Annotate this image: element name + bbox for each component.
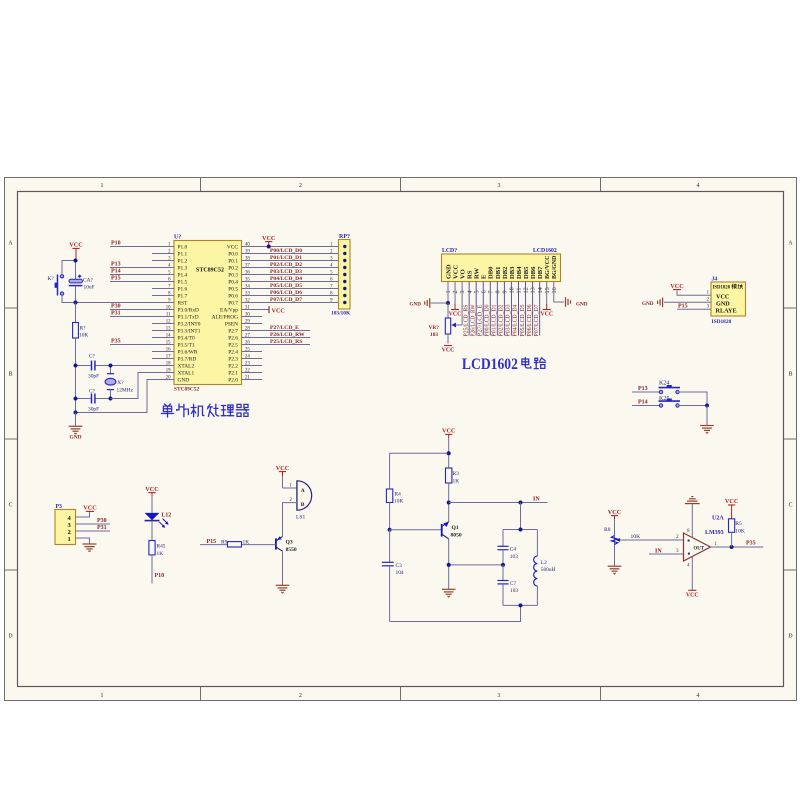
svg-text:P00/LCD_D0: P00/LCD_D0 bbox=[270, 248, 302, 254]
wire P3 pin1 to ground bbox=[76, 538, 90, 544]
ground Q1 bbox=[442, 589, 456, 597]
connector P3 body bbox=[55, 504, 76, 545]
svg-text:P00/LCD_D0: P00/LCD_D0 bbox=[484, 305, 491, 337]
svg-text:P26/LCD_RW: P26/LCD_RW bbox=[469, 304, 476, 337]
svg-text:P07/LCD_D7: P07/LCD_D7 bbox=[270, 297, 302, 303]
junction cap left top bbox=[74, 364, 78, 368]
svg-text:GND: GND bbox=[576, 301, 588, 307]
svg-text:VCC: VCC bbox=[725, 498, 738, 505]
junction gnd node bbox=[74, 411, 78, 415]
svg-text:12MHz: 12MHz bbox=[117, 387, 134, 393]
svg-text:8050: 8050 bbox=[451, 532, 462, 538]
frame column/row tick marks bbox=[4, 177, 797, 701]
svg-text:1K: 1K bbox=[157, 551, 164, 557]
junction base node bbox=[388, 528, 392, 532]
svg-text:11: 11 bbox=[516, 288, 523, 294]
net labels P27/LCD_E P26/LCD_RW P25/LCD_RS bbox=[270, 325, 305, 345]
svg-text:R3: R3 bbox=[453, 471, 460, 477]
svg-text:P25/LCD_RS: P25/LCD_RS bbox=[270, 339, 302, 345]
svg-text:DB6: DB6 bbox=[530, 266, 537, 279]
svg-text:STC89C52: STC89C52 bbox=[174, 387, 199, 393]
wire tank top bbox=[503, 503, 537, 530]
svg-text:P3.6/WR: P3.6/WR bbox=[178, 350, 198, 356]
svg-text:VCC: VCC bbox=[452, 264, 459, 279]
svg-text:4: 4 bbox=[697, 183, 700, 189]
svg-text:ISD1820: ISD1820 bbox=[712, 319, 732, 325]
svg-text:10K: 10K bbox=[79, 333, 88, 339]
svg-text:VCC: VCC bbox=[276, 465, 289, 472]
svg-text:VO: VO bbox=[460, 269, 467, 279]
wire tank bottom loop bbox=[390, 605, 521, 621]
power port VCC Q1 bbox=[442, 428, 455, 438]
svg-text:E: E bbox=[481, 274, 488, 279]
junction collector/IN bbox=[447, 501, 451, 505]
LCD header connector LCD? body bbox=[442, 248, 561, 282]
junction LCD pin1 bbox=[446, 301, 450, 305]
svg-text:30pF: 30pF bbox=[88, 407, 99, 413]
wire P3 pin4 VCC bbox=[76, 512, 90, 517]
svg-text:P2.2: P2.2 bbox=[228, 364, 238, 370]
svg-text:P14: P14 bbox=[638, 400, 648, 406]
svg-text:P31: P31 bbox=[97, 525, 107, 531]
junction IN/tank bbox=[519, 501, 523, 505]
svg-text:VCC: VCC bbox=[83, 505, 96, 512]
svg-text:103: 103 bbox=[510, 588, 518, 594]
wire J4 pin3 P15 bbox=[677, 308, 711, 310]
svg-text:K24: K24 bbox=[659, 380, 669, 386]
op-amp pin numbers bbox=[676, 529, 717, 569]
rotated net labels P25/LCD_RS etc bbox=[462, 304, 539, 337]
svg-text:P02/LCD_D2: P02/LCD_D2 bbox=[498, 305, 505, 337]
svg-text:P1.3: P1.3 bbox=[178, 266, 188, 272]
svg-text:P06/LCD_D6: P06/LCD_D6 bbox=[526, 305, 533, 337]
svg-text:VCC: VCC bbox=[442, 428, 455, 435]
svg-text:P30: P30 bbox=[111, 303, 121, 309]
ground Q3 bbox=[276, 585, 290, 593]
svg-text:1: 1 bbox=[68, 536, 71, 543]
ground K24/K25 bbox=[700, 406, 714, 434]
transistor Q1 8050 bbox=[442, 522, 462, 539]
svg-text:VCC: VCC bbox=[227, 245, 238, 251]
svg-text:4: 4 bbox=[697, 693, 700, 699]
wire R45 to P10 bbox=[151, 555, 153, 584]
svg-text:BG/GND: BG/GND bbox=[551, 255, 558, 279]
svg-text:P10: P10 bbox=[111, 240, 121, 246]
svg-text:3: 3 bbox=[498, 693, 501, 699]
wire P3 pin3 P30 bbox=[76, 523, 111, 525]
ground LCD left (sideways) bbox=[410, 298, 430, 308]
svg-text:P15: P15 bbox=[111, 275, 121, 281]
wire op-amp V+ pin8 bbox=[691, 504, 693, 538]
U? pin name labels bbox=[178, 245, 239, 384]
svg-text:B: B bbox=[301, 502, 305, 508]
svg-text:P31: P31 bbox=[111, 310, 121, 316]
svg-text:VCC: VCC bbox=[69, 242, 82, 249]
svg-text:P3.5/T1: P3.5/T1 bbox=[178, 343, 196, 349]
wire op-amp V- pin4 bbox=[691, 556, 693, 590]
svg-text:P0.1: P0.1 bbox=[228, 259, 238, 265]
svg-text:GND: GND bbox=[642, 301, 654, 307]
wire R8 to pin2 bbox=[620, 539, 684, 541]
svg-text:VCC: VCC bbox=[145, 486, 158, 493]
svg-text:P2.5: P2.5 bbox=[228, 343, 238, 349]
svg-text:GND: GND bbox=[410, 301, 422, 307]
svg-text:P1.7: P1.7 bbox=[178, 294, 188, 300]
svg-text:3: 3 bbox=[498, 183, 501, 189]
U? pin numbers 1-40 bbox=[166, 242, 251, 380]
wire K24 to gnd rail bbox=[679, 392, 707, 406]
svg-text:D: D bbox=[788, 634, 792, 640]
LCD? pin numbers 1-16 (rotated) bbox=[445, 287, 558, 293]
ground reset GND bbox=[69, 413, 83, 441]
svg-text:GND: GND bbox=[70, 435, 82, 441]
power port VCC below VR? bbox=[442, 346, 455, 354]
svg-text:10K: 10K bbox=[735, 528, 745, 534]
svg-text:P0.3: P0.3 bbox=[228, 273, 238, 279]
svg-text:P27/LCD_E: P27/LCD_E bbox=[270, 325, 299, 331]
svg-text:P1.4: P1.4 bbox=[178, 273, 188, 279]
resistor R5 10K bbox=[729, 519, 745, 547]
svg-text:P05/LCD_D5: P05/LCD_D5 bbox=[519, 305, 526, 337]
svg-text:P25/LCD_RS: P25/LCD_RS bbox=[462, 304, 469, 336]
svg-text:6: 6 bbox=[480, 290, 487, 293]
junction reset top bbox=[74, 259, 78, 263]
svg-text:1: 1 bbox=[445, 290, 452, 293]
LED L12 bbox=[145, 512, 172, 528]
svg-text:C7: C7 bbox=[510, 581, 517, 587]
svg-text:P0.0: P0.0 bbox=[228, 252, 238, 258]
svg-text:P1.5: P1.5 bbox=[178, 280, 188, 286]
svg-text:2: 2 bbox=[452, 290, 459, 293]
junction RST node bbox=[74, 301, 78, 305]
svg-text:VCC: VCC bbox=[540, 312, 553, 318]
ground above op-amp (inverted) bbox=[685, 497, 700, 504]
ground LCD right (sideways) bbox=[566, 297, 588, 307]
svg-text:P0.4: P0.4 bbox=[228, 280, 238, 286]
svg-text:P1.0: P1.0 bbox=[178, 245, 188, 251]
svg-text:R?: R? bbox=[80, 325, 87, 331]
svg-text:VCC: VCC bbox=[608, 509, 621, 516]
svg-text:CA?: CA? bbox=[83, 277, 93, 283]
wire emitter node bbox=[449, 539, 503, 589]
svg-text:P03/LCD_D3: P03/LCD_D3 bbox=[505, 304, 512, 336]
wire output P35 bbox=[711, 546, 764, 548]
title LCD1602电路 bbox=[462, 356, 546, 373]
power port VCC at P3 bbox=[83, 505, 96, 512]
wire K25 to gnd rail bbox=[679, 405, 707, 407]
title 单片机处理器 bbox=[161, 404, 249, 417]
wire P3 pin2 P31 bbox=[76, 530, 111, 532]
svg-text:R9: R9 bbox=[221, 540, 228, 546]
svg-text:P04/LCD_D4: P04/LCD_D4 bbox=[270, 276, 302, 282]
capacitor C3 104 bbox=[382, 530, 404, 622]
svg-text:P3.2/INT0: P3.2/INT0 bbox=[178, 322, 201, 328]
svg-text:2: 2 bbox=[299, 693, 302, 699]
svg-text:P01/LCD_D1: P01/LCD_D1 bbox=[491, 305, 498, 337]
svg-text:VCC: VCC bbox=[442, 348, 455, 354]
svg-text:P2.4: P2.4 bbox=[228, 350, 238, 356]
frame zone labels bbox=[8, 183, 793, 699]
svg-text:VCC: VCC bbox=[670, 283, 683, 290]
svg-text:Q1: Q1 bbox=[452, 525, 459, 531]
svg-text:RS: RS bbox=[467, 270, 474, 279]
ground R8 bbox=[608, 566, 622, 574]
svg-text:STC89C52: STC89C52 bbox=[196, 268, 224, 274]
capacitor C7 103 bbox=[497, 565, 518, 606]
power port VCC LCD pin2 bbox=[449, 310, 462, 318]
J4 pin numbers bbox=[707, 291, 710, 310]
svg-text:P26/LCD_RW: P26/LCD_RW bbox=[270, 332, 305, 338]
svg-text:XTAL2: XTAL2 bbox=[178, 364, 195, 370]
svg-text:DB1: DB1 bbox=[495, 267, 502, 279]
svg-text:P13: P13 bbox=[111, 261, 121, 267]
svg-text:103: 103 bbox=[510, 554, 518, 560]
svg-text:P1.6: P1.6 bbox=[178, 287, 188, 293]
svg-text:DB2: DB2 bbox=[502, 266, 509, 279]
svg-text:P2.3: P2.3 bbox=[228, 357, 238, 363]
svg-text:P0.2: P0.2 bbox=[228, 266, 238, 272]
svg-text:R45: R45 bbox=[157, 544, 166, 550]
pushbutton K24 bbox=[659, 380, 681, 393]
svg-text:K?: K? bbox=[48, 276, 55, 282]
wire K? branch bbox=[62, 261, 76, 303]
svg-text:Q3: Q3 bbox=[286, 540, 293, 546]
wire IN net bbox=[449, 502, 548, 504]
svg-text:P07/LCD_D7: P07/LCD_D7 bbox=[533, 304, 540, 337]
svg-text:P3.1/TxD: P3.1/TxD bbox=[178, 315, 199, 321]
svg-text:103: 103 bbox=[430, 332, 438, 338]
wire base bbox=[390, 529, 442, 531]
svg-text:R8: R8 bbox=[604, 527, 611, 533]
svg-text:EA/Vpp: EA/Vpp bbox=[220, 308, 238, 314]
capacitor C? 30pF lower bbox=[76, 388, 111, 412]
svg-text:DB0: DB0 bbox=[488, 266, 495, 279]
wire P13 bbox=[632, 391, 660, 393]
junction emitter bbox=[447, 563, 451, 567]
ground P3 bbox=[83, 544, 97, 551]
svg-text:2: 2 bbox=[299, 183, 302, 189]
svg-text:DB4: DB4 bbox=[516, 266, 523, 279]
junction output/R5 bbox=[730, 545, 734, 549]
svg-text:OUT: OUT bbox=[694, 546, 705, 551]
svg-text:P30: P30 bbox=[97, 518, 107, 524]
junction cap left bottom bbox=[74, 397, 78, 401]
svg-text:RLAYE: RLAYE bbox=[716, 307, 737, 314]
svg-text:500uH: 500uH bbox=[541, 567, 556, 573]
ground J4 (sideways) bbox=[642, 298, 663, 308]
svg-text:15: 15 bbox=[544, 287, 551, 293]
svg-text:10uF: 10uF bbox=[84, 284, 95, 290]
svg-text:P3.7/RD: P3.7/RD bbox=[178, 357, 197, 363]
svg-text:C: C bbox=[789, 503, 793, 509]
svg-text:J4: J4 bbox=[712, 277, 718, 283]
power port VCC R8 bbox=[608, 509, 621, 519]
svg-text:1: 1 bbox=[101, 693, 104, 699]
capacitor CA? 10uF bbox=[69, 261, 95, 303]
power port VCC R5 bbox=[725, 498, 738, 519]
wire R3 to collector node bbox=[448, 483, 450, 522]
svg-text:B: B bbox=[789, 372, 793, 378]
svg-text:10K: 10K bbox=[394, 499, 403, 505]
svg-text:X?: X? bbox=[117, 380, 124, 386]
wire P15 stub bbox=[200, 544, 228, 546]
junction tank top bbox=[519, 528, 523, 532]
svg-text:ALE/PROG: ALE/PROG bbox=[212, 315, 238, 321]
svg-text:P2.6: P2.6 bbox=[228, 336, 238, 342]
svg-text:16: 16 bbox=[551, 287, 558, 293]
resistor R45 1K bbox=[149, 541, 166, 557]
svg-text:103/10K: 103/10K bbox=[331, 311, 351, 317]
junction xtal top bbox=[109, 364, 113, 368]
svg-text:7: 7 bbox=[487, 290, 494, 293]
VR? wiper arrow from LCD pin3 bbox=[451, 323, 462, 328]
LS1 pin numbers bbox=[290, 483, 293, 503]
svg-text:P0.7: P0.7 bbox=[228, 301, 238, 307]
power port VCC below op-amp bbox=[686, 590, 699, 598]
svg-text:P10: P10 bbox=[155, 573, 165, 579]
svg-text:P3.3/INT1: P3.3/INT1 bbox=[178, 329, 201, 335]
junction tank bottom bbox=[519, 603, 523, 607]
svg-text:LCD1602: LCD1602 bbox=[462, 356, 518, 373]
svg-text:P04/LCD_D4: P04/LCD_D4 bbox=[512, 304, 519, 337]
svg-text:VCC: VCC bbox=[686, 592, 699, 598]
svg-text:BG/VCC: BG/VCC bbox=[544, 255, 551, 279]
junction C4/C7 bbox=[501, 563, 505, 567]
wire Q3 base bbox=[242, 544, 276, 546]
junction xtal bottom bbox=[109, 397, 113, 401]
resistor R3 1K bbox=[446, 468, 460, 484]
svg-text:1: 1 bbox=[101, 183, 104, 189]
svg-text:LCD?: LCD? bbox=[442, 248, 457, 254]
svg-text:1K: 1K bbox=[243, 540, 250, 546]
svg-text:3: 3 bbox=[459, 290, 466, 293]
svg-text:VCC: VCC bbox=[272, 307, 285, 314]
pushbutton K25 bbox=[659, 396, 681, 407]
svg-text:8: 8 bbox=[494, 290, 501, 293]
svg-text:P02/LCD_D2: P02/LCD_D2 bbox=[270, 262, 302, 268]
svg-text:4: 4 bbox=[466, 290, 473, 293]
svg-text:P0.5: P0.5 bbox=[228, 287, 238, 293]
svg-text:ISD1820: ISD1820 bbox=[713, 286, 731, 291]
svg-text:A: A bbox=[301, 488, 305, 494]
MCU U? STC89C52 body bbox=[174, 235, 242, 393]
svg-text:30pF: 30pF bbox=[88, 374, 99, 380]
svg-text:PSEN: PSEN bbox=[225, 322, 238, 328]
svg-text:13: 13 bbox=[530, 287, 537, 293]
wire P14 bbox=[632, 405, 660, 407]
svg-text:9: 9 bbox=[502, 290, 509, 293]
svg-text:RST: RST bbox=[178, 301, 189, 307]
svg-text:K25: K25 bbox=[659, 396, 669, 402]
U? right pin wires bbox=[242, 247, 339, 380]
svg-text:U2A: U2A bbox=[712, 516, 724, 522]
module J4 ISD1820 body bbox=[711, 277, 746, 325]
crystal X? 12MHz bbox=[105, 366, 133, 399]
wire XTAL1 to C? bbox=[111, 373, 175, 399]
svg-text:12: 12 bbox=[523, 287, 530, 293]
svg-text:IN: IN bbox=[655, 548, 662, 554]
svg-text:P06/LCD_D6: P06/LCD_D6 bbox=[270, 290, 302, 296]
svg-text:P13: P13 bbox=[638, 386, 648, 392]
junction K24/K25 bbox=[705, 404, 709, 408]
svg-text:R4: R4 bbox=[395, 491, 402, 497]
svg-text:XTAL1: XTAL1 bbox=[178, 371, 195, 377]
capacitor C? 30pF upper bbox=[76, 353, 111, 379]
svg-text:L12: L12 bbox=[162, 512, 172, 518]
power port VCC LCD pin15 bbox=[540, 310, 553, 318]
power port VCC LS1 bbox=[276, 465, 289, 476]
svg-text:P35: P35 bbox=[746, 541, 756, 547]
net labels P10 P13 P14 P15 P30 P31 P35 bbox=[111, 240, 121, 344]
LCD pin wires bbox=[448, 282, 554, 336]
svg-text:P1.1: P1.1 bbox=[178, 252, 188, 258]
wire LED to R45 bbox=[151, 521, 153, 541]
wire J4 pin1 VCC bbox=[677, 291, 711, 296]
svg-text:P2.7: P2.7 bbox=[228, 329, 238, 335]
svg-text:C3: C3 bbox=[396, 563, 403, 569]
svg-text:GND: GND bbox=[445, 264, 452, 279]
svg-text:VCC: VCC bbox=[449, 312, 462, 318]
wire Q3 emitter to ground bbox=[282, 551, 284, 585]
svg-text:LM393: LM393 bbox=[705, 530, 724, 536]
svg-text:LS1: LS1 bbox=[296, 515, 306, 521]
svg-text:P2.1: P2.1 bbox=[228, 371, 238, 377]
wire LS1 pin2 to Q3 bbox=[283, 503, 298, 537]
resistor network RP? bbox=[330, 234, 351, 317]
wire LCD pin16 to ground bbox=[554, 301, 564, 303]
svg-text:P05/LCD_D5: P05/LCD_D5 bbox=[270, 283, 302, 289]
svg-text:P0.6: P0.6 bbox=[228, 294, 238, 300]
wire J4 pin2 to ground bbox=[664, 301, 711, 303]
speaker LS1 bbox=[296, 481, 312, 521]
svg-text:P03/LCD_D3: P03/LCD_D3 bbox=[270, 269, 302, 275]
wire GND pin20 bbox=[76, 380, 175, 413]
svg-text:104: 104 bbox=[396, 570, 404, 576]
transistor Q3 8550 bbox=[276, 536, 297, 553]
LCD? pin name labels (rotated) bbox=[445, 255, 558, 279]
svg-text:P1.2: P1.2 bbox=[178, 259, 188, 265]
inductor L2 500uH bbox=[534, 530, 556, 606]
wire tank bottom bbox=[503, 604, 537, 606]
wire LCD pin1 to ground bbox=[431, 302, 449, 304]
svg-text:DB7: DB7 bbox=[537, 266, 544, 279]
svg-text:5: 5 bbox=[473, 290, 480, 293]
capacitor C4 103 bbox=[497, 530, 518, 565]
svg-text:R5: R5 bbox=[735, 521, 742, 527]
svg-text:VCC: VCC bbox=[262, 235, 275, 242]
potentiometer VR? 103 bbox=[429, 303, 451, 344]
potentiometer R8 bbox=[604, 519, 620, 566]
power port VCC at J4 bbox=[670, 283, 683, 290]
svg-text:P2.0: P2.0 bbox=[228, 378, 238, 384]
svg-text:10: 10 bbox=[509, 287, 516, 293]
resistor R4 10K bbox=[386, 489, 403, 505]
svg-text:10K: 10K bbox=[631, 534, 641, 540]
svg-text:RP?: RP? bbox=[339, 234, 350, 240]
wire R4 to base node bbox=[389, 503, 391, 530]
op-amp U2A LM393 bbox=[684, 516, 725, 562]
power port VCC at U? pin 31 (bar style) bbox=[269, 306, 285, 314]
svg-text:D: D bbox=[8, 634, 12, 640]
wire IN to pin3 bbox=[649, 553, 684, 555]
svg-text:DB3: DB3 bbox=[509, 266, 516, 279]
svg-text:GND: GND bbox=[178, 378, 190, 384]
svg-text:C?: C? bbox=[89, 388, 96, 394]
svg-text:P3.0/RxD: P3.0/RxD bbox=[178, 308, 200, 314]
svg-text:C: C bbox=[9, 503, 13, 509]
power port VCC at U? pin 40 bbox=[262, 235, 275, 249]
svg-text:1K: 1K bbox=[453, 478, 460, 484]
